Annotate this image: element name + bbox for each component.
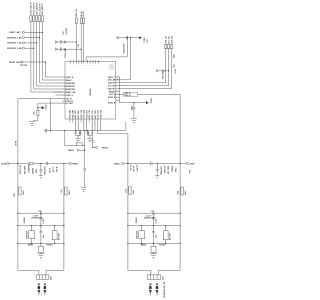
svg-text:4.7uF: 4.7uF	[174, 68, 177, 74]
J3 wire labels	[173, 54, 176, 68]
terminal lug pair A	[149, 283, 158, 295]
svg-text:GND_IN3: GND_IN3	[171, 36, 173, 44]
svg-text:SCL_M2: SCL_M2	[108, 86, 115, 88]
svg-text:RESET_AB: RESET_AB	[66, 91, 76, 94]
U1 bottom pin numbers	[69, 122, 101, 124]
wire box bottom	[18, 269, 64, 271]
U1 right pins	[116, 77, 120, 100]
capacitor C12m	[40, 226, 43, 244]
U1 top pin numbers	[70, 64, 100, 66]
svg-text:PVDD_B: PVDD_B	[108, 102, 116, 104]
svg-text:GND_AB1: GND_AB1	[69, 110, 72, 119]
svg-text:VREG_A1: VREG_A1	[75, 9, 78, 17]
right rail value labels	[129, 165, 177, 175]
svg-text:MONITOR0: MONITOR0	[66, 89, 75, 91]
wire stub M3	[53, 91, 62, 93]
wire stubs to speaker connector right	[151, 270, 158, 275]
svg-text:15uH: 15uH	[23, 190, 25, 195]
svg-text:MONITOR_0_AB: MONITOR_0_AB	[7, 47, 22, 50]
svg-text:GND_AB2: GND_AB2	[71, 110, 74, 119]
wire aux to IC top	[86, 38, 127, 62]
svg-text:J5 B: J5 B	[163, 276, 165, 280]
svg-text:R9 5K6: R9 5K6	[159, 244, 165, 246]
terminal INTBD	[69, 162, 71, 164]
wire PVDD_B flag	[119, 102, 145, 104]
svg-text:/RESET: /RESET	[109, 91, 116, 93]
svg-text:J4 B: J4 B	[50, 276, 53, 280]
svg-text:VREG1: VREG1	[68, 150, 74, 152]
connector J5 speaker out A	[147, 275, 160, 279]
U1 bottom pins	[70, 119, 101, 134]
terminal lug pair B	[38, 283, 46, 295]
svg-text:23: 23	[100, 122, 102, 124]
svg-text:27: 27	[116, 93, 118, 95]
J1 pin name labels	[30, 1, 45, 14]
resistor R1	[37, 111, 39, 116]
svg-text:39: 39	[83, 64, 85, 66]
op-amp U1 class-D amplifier IC	[65, 62, 116, 120]
svg-text:R16 7R00: R16 7R00	[25, 166, 27, 174]
wire J1 pin4 down	[40, 21, 63, 83]
capacitor C4 to ground	[157, 69, 169, 72]
terminal VREG_B tap	[77, 149, 79, 151]
wire right rail	[124, 162, 186, 164]
svg-text:SDA: SDA	[173, 54, 176, 58]
svg-text:34: 34	[98, 64, 100, 66]
ground	[81, 187, 87, 191]
wire PVDD down to IC	[116, 38, 131, 80]
terminal VREG_A tap	[96, 147, 98, 149]
svg-text:VPA: VPA	[176, 190, 179, 194]
svg-text:OUTA: OUTA	[189, 163, 195, 166]
svg-text:14: 14	[75, 122, 77, 124]
svg-text:+: +	[41, 294, 43, 295]
svg-text:R8 5K6: R8 5K6	[47, 244, 53, 246]
terminal /FAULT	[23, 31, 43, 33]
connector J1	[30, 16, 44, 22]
svg-text:15uH: 15uH	[69, 190, 71, 195]
svg-text:26: 26	[116, 96, 118, 98]
wire stubs to speaker connector	[39, 270, 46, 275]
terminal OUTA	[186, 162, 188, 164]
svg-text:TAS5162: TAS5162	[89, 89, 92, 96]
wire right leg B	[179, 163, 181, 270]
svg-text:OUTB: OUTB	[15, 140, 17, 146]
svg-text:C24 JP7: C24 JP7	[136, 165, 139, 172]
terminal RESET_AB	[21, 61, 46, 63]
capacitor C1 to ground	[56, 40, 77, 43]
svg-text:PVDD_AB2 TP: PVDD_AB2 TP	[33, 2, 36, 15]
ground flag left	[44, 129, 46, 133]
wire U1 to J3 GND	[119, 88, 171, 90]
svg-text:VDD_AB34 TP: VDD_AB34 TP	[35, 2, 38, 15]
J3 pin name labels	[165, 36, 174, 44]
svg-text:SCL: SCL	[174, 63, 176, 67]
svg-text:GND_A16: GND_A16	[83, 110, 86, 118]
svg-text:5: 5	[63, 88, 64, 90]
svg-text:GVDD_A: GVDD_A	[66, 76, 74, 79]
wire RESET to IC	[45, 62, 62, 77]
svg-text:JP9/NC: JP9/NC	[136, 217, 138, 224]
svg-text:PVDD_A: PVDD_A	[66, 94, 74, 97]
resistor R6	[139, 231, 145, 239]
svg-text:GND_A: GND_A	[124, 94, 131, 97]
power flag PVDD_B	[146, 101, 149, 104]
svg-text:RESET_ABCD: RESET_ABCD	[9, 61, 22, 64]
svg-text:MONITOR2: MONITOR2	[66, 83, 75, 85]
svg-text:GND_B17: GND_B17	[86, 110, 88, 118]
connector J4 speaker out B	[36, 275, 49, 279]
svg-text:1000uF/35V: 1000uF/35V	[123, 43, 125, 54]
svg-text:10K/.25W: 10K/.25W	[27, 231, 29, 239]
svg-text:2: 2	[63, 79, 64, 81]
resistor R7	[163, 231, 168, 240]
svg-text:OUT_A21: OUT_A21	[97, 110, 100, 118]
svg-text:GND_AB6 TP: GND_AB6 TP	[41, 3, 44, 15]
svg-text:18: 18	[86, 122, 88, 124]
connector J2	[75, 18, 84, 24]
svg-text:1.25W/JP6: 1.25W/JP6	[29, 164, 31, 173]
svg-text:GND_M1: GND_M1	[108, 88, 116, 90]
speaker out label	[163, 281, 166, 297]
wire J3 pin2 to IC	[168, 49, 170, 86]
svg-text:17: 17	[83, 122, 85, 124]
wire right leg	[63, 164, 65, 271]
U1 left pins	[62, 77, 65, 103]
wire ladder rail 3	[18, 242, 64, 244]
inductor L4	[181, 187, 183, 195]
svg-text:C30: C30	[38, 211, 41, 213]
wire bottom rail right	[128, 212, 180, 214]
svg-text:INTAD: INTAD	[114, 163, 120, 166]
wire ladder rail 3 right	[128, 242, 180, 244]
svg-text:25: 25	[116, 99, 118, 101]
svg-text:R17 7R00: R17 7R00	[168, 166, 170, 174]
capacitor C14 to ground	[155, 163, 159, 178]
power flag PVDD	[139, 36, 142, 39]
svg-text:C31: C31	[151, 211, 154, 213]
svg-text:GVDD: GVDD	[46, 104, 48, 110]
wire ladder rail 2	[18, 225, 64, 227]
svg-text:R5 / 470: R5 / 470	[57, 233, 60, 240]
svg-text:100uF: 100uF	[131, 104, 133, 110]
svg-text:22K: 22K	[34, 111, 36, 115]
svg-text:TP4: TP4	[189, 170, 192, 173]
svg-text:42: 42	[76, 64, 78, 66]
wire OC_ADJ network	[33, 103, 63, 121]
svg-text:4u7 X: 4u7 X	[52, 166, 55, 172]
svg-text:VREG2: VREG2	[102, 147, 108, 149]
wire J2 pin1 down	[75, 24, 77, 62]
svg-text:TP1/TP4: TP1/TP4	[20, 64, 27, 67]
capacitor C7 pair to ground	[87, 130, 94, 142]
terminal MONITOR_0	[23, 47, 35, 49]
right pin bus	[118, 77, 120, 103]
svg-text:15: 15	[77, 122, 79, 124]
capacitor C13 series	[151, 162, 152, 165]
wire J1 pin2 down	[34, 21, 63, 89]
wire J3 pin3 to IC	[171, 49, 173, 89]
U1 bottom pin labels	[69, 110, 103, 119]
svg-text:15uH: 15uH	[185, 190, 187, 195]
terminal INTAD	[122, 162, 124, 164]
svg-text:8: 8	[63, 97, 64, 99]
node VREG_B	[84, 131, 86, 187]
wire J3 pin1 to IC	[165, 49, 167, 83]
inductor L3	[129, 187, 131, 195]
svg-text:INTBD: INTBD	[72, 164, 78, 166]
connector J3	[165, 44, 173, 48]
svg-text:OUTB: OUTB	[1, 164, 7, 166]
wire bottom rail	[18, 212, 64, 214]
capacitor C10 series	[40, 212, 41, 215]
svg-text:OC_ADJ5 TP: OC_ADJ5 TP	[38, 3, 41, 15]
wire J2 pin2 down	[80, 24, 82, 62]
svg-text:SCL_IN2: SCL_IN2	[168, 36, 170, 43]
svg-text:C13: C13	[78, 44, 80, 47]
svg-text:1000u/25V: 1000u/25V	[161, 165, 163, 175]
svg-text:100uF/16V: 100uF/16V	[162, 70, 164, 80]
resistor R4	[52, 231, 57, 240]
svg-text:BST_B14: BST_B14	[77, 111, 80, 119]
wire U1 to J3 SCL	[119, 85, 168, 87]
svg-text:7: 7	[63, 94, 64, 96]
inductor L1	[19, 187, 21, 195]
svg-text:MONITOR_1_AB: MONITOR_1_AB	[7, 42, 22, 45]
svg-text:21: 21	[94, 122, 96, 124]
svg-text:33nF: 33nF	[88, 130, 90, 135]
resistor R5 bleeder	[40, 243, 42, 253]
svg-text:22: 22	[97, 122, 99, 124]
resistor R3	[29, 231, 35, 239]
svg-text:SPEAKER OUT 4R: SPEAKER OUT 4R	[163, 281, 166, 297]
svg-text:15uH: 15uH	[133, 189, 135, 194]
svg-text:50V M: 50V M	[56, 166, 58, 172]
svg-text:9: 9	[63, 100, 64, 102]
svg-text:35: 35	[95, 64, 97, 66]
svg-text:C22 B: C22 B	[49, 167, 51, 173]
capacitor C15 series	[153, 212, 154, 215]
svg-text:50V X7: 50V X7	[134, 166, 136, 172]
svg-text:43: 43	[73, 64, 75, 66]
svg-text:13: 13	[72, 122, 74, 124]
svg-text:0.1uF: 0.1uF	[156, 218, 158, 224]
svg-text:-: -	[47, 294, 49, 295]
svg-text:0.1uF: 0.1uF	[43, 218, 45, 224]
capacitor C16	[152, 213, 155, 226]
wire ladder rail 2 right	[128, 225, 180, 227]
terminal OUTB	[7, 162, 9, 164]
svg-text:SDA_M3: SDA_M3	[108, 82, 115, 85]
svg-text:FB12: FB12	[36, 169, 38, 173]
wire OUT_A2 feed to right filter	[98, 134, 128, 164]
svg-text:MONITOR1: MONITOR1	[66, 86, 75, 88]
svg-text:GND_C15: GND_C15	[81, 110, 83, 118]
svg-text:1000u/25V: 1000u/25V	[44, 165, 46, 175]
svg-text:BBW3: BBW3	[28, 244, 33, 246]
svg-text:6: 6	[63, 91, 64, 93]
svg-text:1uF: 1uF	[43, 234, 45, 238]
svg-text:SDA_IN1: SDA_IN1	[165, 36, 168, 44]
capacitor C9 to ground	[39, 164, 43, 179]
wire OUT_B2 feed	[65, 131, 85, 146]
svg-text:44: 44	[70, 64, 72, 66]
ground	[150, 254, 157, 259]
U1 right pin numbers	[116, 76, 118, 101]
svg-text:28: 28	[116, 90, 118, 92]
svg-text:31: 31	[116, 81, 118, 83]
U1 left pin numbers	[63, 76, 65, 104]
U1 right pin labels	[108, 77, 116, 105]
wire J1 pin5 down	[43, 21, 63, 80]
capacitor C5 to ground	[131, 103, 137, 123]
svg-text:1uF: 1uF	[156, 234, 158, 238]
svg-text:VPB: VPB	[14, 193, 16, 197]
svg-text:1: 1	[63, 76, 64, 78]
capacitor C17	[152, 226, 155, 244]
net label box OUT_A	[124, 92, 138, 96]
svg-text:1W/2W: 1W/2W	[172, 166, 174, 172]
U1 thermal pad	[109, 65, 114, 70]
wire stub M0	[55, 94, 62, 96]
svg-text:OUT_A: OUT_A	[109, 93, 116, 96]
wire OUT_B to left filter	[18, 99, 63, 164]
wire J1 pin3 down	[37, 21, 63, 86]
U1 top pin labels	[64, 48, 67, 57]
svg-text:OC_ADJ: OC_ADJ	[66, 102, 73, 105]
wire left rail	[9, 163, 69, 165]
wire J2 pin3 down	[83, 24, 85, 62]
ferrite bead FB1	[29, 163, 33, 165]
capacitor C11	[40, 213, 43, 226]
ground	[29, 121, 35, 125]
svg-text:32: 32	[116, 79, 118, 81]
U1 left pin labels	[66, 76, 76, 105]
capacitor C8 series	[46, 162, 47, 165]
svg-text:GND_D22: GND_D22	[100, 110, 102, 118]
svg-text:38: 38	[87, 64, 89, 66]
svg-text:3: 3	[63, 82, 64, 84]
wire U1 to J3 SDA	[119, 82, 165, 84]
terminal MONITOR_1	[23, 42, 38, 44]
svg-text:30: 30	[116, 84, 118, 86]
svg-text:4: 4	[63, 85, 64, 87]
svg-text:BST_C19: BST_C19	[92, 111, 94, 119]
svg-text:1uF/16V: 1uF/16V	[66, 27, 68, 35]
svg-text:/FAULT: /FAULT	[66, 79, 73, 82]
wire box bottom right	[128, 269, 180, 271]
svg-text:12: 12	[69, 122, 71, 124]
capacitor C6 pair to ground	[75, 130, 82, 142]
svg-text:MONITOR_2_AB: MONITOR_2_AB	[7, 36, 22, 39]
wire OUT_A to right filter	[119, 94, 180, 163]
wire right leg A	[127, 163, 129, 270]
svg-text:19: 19	[89, 122, 91, 124]
svg-text:10K/.25W: 10K/.25W	[137, 231, 139, 239]
svg-text:20: 20	[91, 122, 93, 124]
wire J1 pin1 down	[31, 21, 63, 92]
svg-text:12V: 12V	[147, 39, 149, 43]
svg-text:FB13: FB13	[175, 168, 177, 172]
svg-text:1W/2W: 1W/2W	[32, 168, 34, 174]
svg-text:R6 / 470: R6 / 470	[168, 233, 171, 240]
svg-text:OUT_C18: OUT_C18	[89, 110, 91, 118]
svg-text:33: 33	[116, 76, 118, 78]
resistor R2 snubber	[76, 143, 82, 146]
terminal MONITOR_2	[23, 37, 41, 39]
ground bus	[46, 122, 126, 131]
J2 pin name labels	[75, 9, 85, 17]
ground	[37, 254, 44, 259]
wire AGND down	[49, 99, 51, 131]
left rail value labels	[20, 164, 58, 175]
svg-text:BBW3: BBW3	[141, 244, 146, 246]
svg-text:BST_D20: BST_D20	[95, 111, 97, 119]
svg-text:GVDD_AB1 TP: GVDD_AB1 TP	[30, 1, 33, 14]
svg-text:36: 36	[92, 64, 94, 66]
svg-text:JP8/NC: JP8/NC	[24, 217, 26, 224]
svg-text:PVDD: PVDD	[151, 98, 153, 104]
svg-text:29: 29	[116, 87, 118, 89]
svg-text:BST_A13: BST_A13	[74, 111, 77, 119]
svg-text:16: 16	[80, 122, 82, 124]
svg-text:10: 10	[63, 102, 65, 104]
capacitor C3 PVDD bulk	[117, 36, 139, 39]
svg-text:37: 37	[90, 64, 92, 66]
svg-text:./FAULT_AB_C: ./FAULT_AB_C	[9, 31, 23, 34]
wire to terminal VREG_A	[93, 136, 96, 148]
svg-text:VR_B3: VR_B3	[83, 11, 85, 17]
svg-text:PVDD_A: PVDD_A	[108, 96, 116, 99]
svg-text:GND_AB: GND_AB	[108, 79, 116, 82]
svg-text:NPB1 C18: NPB1 C18	[20, 165, 22, 174]
capacitor C2 to ground	[56, 48, 82, 51]
U1 top pins	[71, 60, 99, 64]
svg-text:NPA C19: NPA C19	[164, 166, 167, 173]
U1 part number	[89, 89, 92, 96]
svg-text:L1-A: L1-A	[124, 188, 127, 193]
resistor R8 bleeder	[153, 243, 155, 253]
wire left leg	[17, 164, 19, 271]
svg-text:L1-B: L1-B	[61, 189, 63, 194]
svg-text:VREG_C: VREG_C	[108, 77, 116, 79]
svg-text:4u7 C2: 4u7 C2	[129, 165, 132, 171]
power flag GVDD	[38, 106, 44, 109]
svg-text:PVDD_AB: PVDD_AB	[64, 48, 67, 57]
inductor L2	[65, 187, 67, 195]
